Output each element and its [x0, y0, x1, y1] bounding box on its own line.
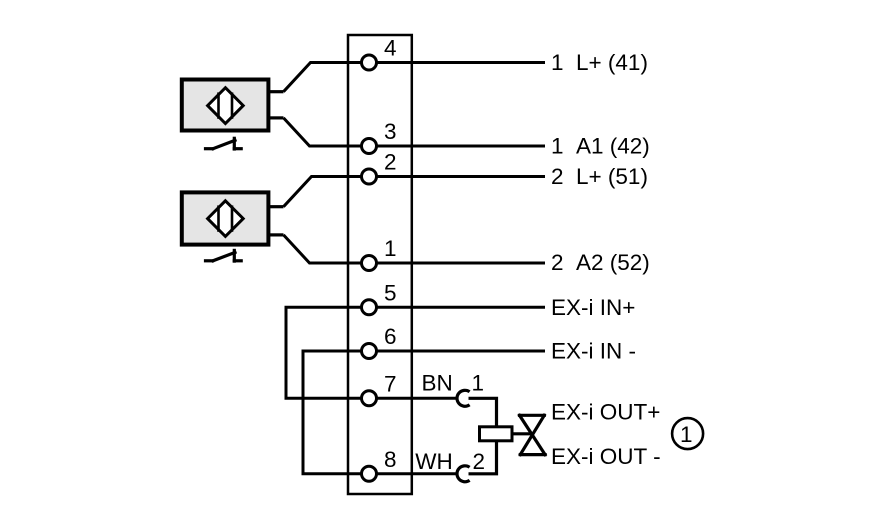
sensor S2 terminal stubs [269, 207, 284, 235]
sensor S2 body [182, 192, 269, 244]
wire S1 to terminal 3 and label 1 A1 (42) [284, 118, 546, 146]
plug contact 2 (WH) arc [457, 466, 470, 482]
svg-text:4: 4 [384, 36, 397, 61]
svg-text:BN: BN [422, 371, 453, 396]
wire coil to valve [514, 432, 533, 435]
switch symbol under S2 [206, 250, 242, 261]
solenoid coil [480, 427, 513, 441]
wire loop terminal 5 to terminal 7 [286, 307, 369, 398]
plug contact 1 (BN) arc [457, 390, 470, 406]
connector strip (terminal block) [348, 35, 412, 494]
svg-text:1: 1 [680, 422, 693, 447]
terminal 6 [362, 344, 377, 359]
svg-text:EX-i OUT -: EX-i OUT - [551, 444, 661, 469]
svg-text:EX-i IN+: EX-i IN+ [551, 295, 635, 320]
wire terminal 7 to BN plug [369, 397, 456, 400]
terminal 2 [362, 169, 377, 184]
svg-text:6: 6 [384, 324, 397, 349]
terminal 8 [362, 466, 377, 481]
wire S2 to terminal 1 and label 2 A2 (52) [284, 235, 546, 263]
terminal 5 [362, 300, 377, 315]
terminal 4 [362, 55, 377, 70]
note marker circled 1 [672, 418, 703, 449]
wire WH plug to solenoid coil [469, 442, 497, 474]
wire loop terminal 6 to terminal 8 [303, 351, 369, 474]
svg-text:2 A2 (52): 2 A2 (52) [551, 250, 650, 275]
sensor S2 inductive symbol (diamond with stripes) [208, 201, 244, 237]
svg-text:2 L+ (51): 2 L+ (51) [551, 164, 648, 189]
svg-text:1: 1 [384, 236, 397, 261]
wire terminal 5 to EX-i IN+ [369, 306, 545, 309]
wire S2 to terminal 2 and label 2 L+ (51) [284, 177, 546, 207]
wire BN plug to solenoid coil [469, 398, 497, 426]
switch symbol under S1 [206, 138, 242, 149]
svg-text:3: 3 [384, 119, 397, 144]
sensor S1 inductive symbol (diamond with stripes) [208, 88, 244, 124]
svg-text:7: 7 [384, 372, 397, 397]
terminal 1 [362, 256, 377, 271]
sensor S1 body [182, 80, 269, 131]
svg-text:5: 5 [384, 281, 397, 306]
svg-text:2: 2 [473, 449, 486, 474]
wire terminal 6 to EX-i IN- [369, 350, 545, 353]
svg-text:1: 1 [472, 371, 485, 396]
wire terminal 8 to WH plug [369, 472, 456, 475]
svg-text:2: 2 [384, 150, 397, 175]
svg-text:WH: WH [415, 449, 453, 474]
svg-text:8: 8 [384, 447, 397, 472]
svg-text:1 L+ (41): 1 L+ (41) [551, 50, 648, 75]
sensor S1 terminal stubs [269, 92, 284, 118]
svg-text:EX-i IN -: EX-i IN - [551, 339, 636, 364]
svg-text:EX-i OUT+: EX-i OUT+ [551, 400, 660, 425]
svg-text:1 A1 (42): 1 A1 (42) [551, 134, 650, 159]
terminal 7 [362, 391, 377, 406]
valve symbol (bowtie) [520, 415, 546, 454]
wire S1 to terminal 4 and label 1 L+ (41) [284, 63, 546, 92]
terminal 3 [362, 139, 377, 154]
